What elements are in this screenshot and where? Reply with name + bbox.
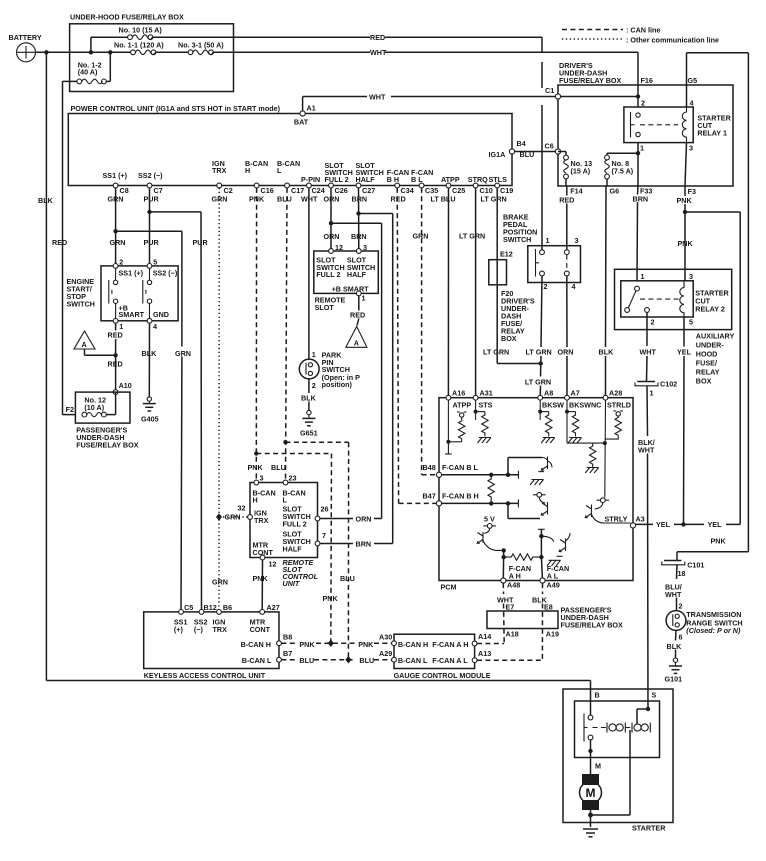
svg-text:IG1A: IG1A — [489, 150, 506, 159]
PCM F-CAN A L transistor cluster — [541, 533, 570, 566]
ground G651 — [300, 410, 318, 437]
svg-text:C101: C101 — [687, 561, 704, 570]
wire LT BLU C25 to PCM A16 — [448, 188, 485, 398]
PCM labels F-CAN A H / A L — [509, 564, 569, 581]
keyless pin B6 IGN TRX — [213, 603, 233, 634]
PCM pin A16 ATPP — [445, 388, 471, 454]
remote slot label and pin 1 — [315, 291, 366, 326]
connector C101 — [662, 561, 705, 579]
driver's under-dash fuse/relay box — [558, 61, 733, 186]
svg-text:1: 1 — [119, 322, 123, 331]
wire relay2 pin2 WHT down to C102 — [640, 312, 657, 381]
svg-text:E7: E7 — [506, 603, 515, 612]
svg-text:ORN: ORN — [356, 514, 372, 523]
svg-text:WHT: WHT — [640, 348, 657, 357]
svg-text:SS1 (+): SS1 (+) — [103, 171, 128, 180]
svg-text:G101: G101 — [665, 675, 683, 684]
svg-text:BOX: BOX — [501, 334, 517, 343]
svg-text:P-PIN: P-PIN — [301, 175, 320, 184]
svg-text:BLU: BLU — [359, 656, 374, 665]
svg-text:1: 1 — [312, 350, 316, 359]
svg-text:LT GRN: LT GRN — [459, 232, 485, 241]
PCM pin A8 BKSW — [538, 388, 564, 443]
svg-text:SS2 (−): SS2 (−) — [138, 171, 163, 180]
pin A1 BAT — [294, 104, 316, 127]
PCM F-CAN A resistor row — [502, 529, 545, 580]
starter motor — [580, 774, 602, 827]
starter outer box — [563, 689, 673, 833]
svg-text:1: 1 — [641, 272, 645, 281]
svg-text:C6: C6 — [545, 142, 554, 151]
svg-text:2: 2 — [312, 381, 316, 390]
PCM pin A28 STRLD — [603, 388, 631, 497]
svg-text:H: H — [245, 166, 250, 175]
wire BLU dashed B7 to gauge A29 — [281, 656, 391, 665]
wire F33 BRN down to relay2 pin 1 — [637, 186, 638, 281]
remote slot control unit label — [283, 558, 319, 588]
svg-text:(15 A): (15 A) — [571, 167, 591, 176]
svg-text:GRN: GRN — [212, 578, 228, 587]
PCU bottom pin C25 ATPP LT BLU — [431, 175, 466, 204]
starter cut relay 1 — [624, 98, 732, 186]
remote slot pin 12 MTR CONT — [253, 541, 277, 569]
keyless pin B12 SS2(-) — [194, 603, 217, 634]
svg-text:26: 26 — [321, 505, 329, 514]
starter coil return wire — [591, 730, 631, 815]
wire BLU/WHT to transmission range switch — [665, 565, 682, 611]
svg-text:TRX: TRX — [212, 166, 227, 175]
legend other communication line — [562, 36, 719, 45]
gauge pin A29 — [379, 649, 428, 665]
pin B4 IG1A BLU — [489, 139, 559, 159]
svg-text:A14: A14 — [478, 632, 491, 641]
svg-text:B-CAN H: B-CAN H — [241, 640, 271, 649]
svg-text:2: 2 — [679, 602, 683, 611]
wire S terminal to coils — [637, 707, 650, 724]
node G5 wire up and over to right edge — [687, 53, 749, 552]
passenger's under-dash fuse/relay box (No.12) — [66, 392, 139, 449]
PCU bottom pin C27 SLOT SWITCH HALF BRN — [352, 161, 384, 204]
wire RED No.10 branch y=37.2 — [89, 33, 542, 55]
wire BLK park pin to G651 — [301, 379, 317, 411]
svg-text:GND: GND — [153, 310, 169, 319]
PCU bottom pin C7 SS2(-) PUR — [138, 171, 163, 204]
wire WHT C24 to park pin switch — [308, 188, 310, 359]
ground G405 — [141, 397, 159, 424]
svg-text:WHT: WHT — [369, 93, 386, 102]
PCM 5V node and transistor — [478, 515, 504, 551]
wire WHT from A1 BAT y=96.5 — [303, 93, 638, 114]
svg-text:RED: RED — [350, 311, 365, 320]
svg-text:3: 3 — [575, 236, 579, 245]
remote slot pin 32 IGN TRX — [238, 504, 269, 526]
svg-text:1: 1 — [362, 294, 366, 303]
svg-text:WHT: WHT — [370, 48, 387, 57]
fuse No. 13 (15 A) — [564, 155, 592, 186]
slot switch unit box — [314, 232, 379, 294]
svg-text:AUXILIARY: AUXILIARY — [696, 332, 735, 341]
wire RED top branch down to brake switch pin 1 — [541, 37, 543, 250]
svg-text:ORN: ORN — [558, 348, 574, 357]
wire BLK left vertical from battery — [38, 50, 54, 680]
PCM pin A7 BKSWNC — [565, 388, 602, 443]
svg-text:TRANSMISSION: TRANSMISSION — [686, 610, 741, 619]
engine start/stop switch — [67, 257, 179, 331]
F-row F3 PNK — [677, 187, 696, 205]
svg-text:A: A — [82, 340, 87, 349]
svg-text:PNK: PNK — [253, 574, 269, 583]
svg-text:BLU: BLU — [299, 656, 314, 665]
svg-text:A27: A27 — [267, 603, 280, 612]
svg-text:FULL 2: FULL 2 — [283, 520, 307, 529]
svg-text:4: 4 — [572, 282, 576, 291]
svg-text:PNK: PNK — [677, 196, 693, 205]
svg-text:A31: A31 — [480, 388, 493, 397]
starter solenoid coils — [607, 723, 650, 733]
svg-text:3: 3 — [260, 474, 264, 483]
svg-text:ATPP: ATPP — [441, 175, 460, 184]
svg-text:A28: A28 — [609, 388, 622, 397]
svg-text:ORN: ORN — [324, 232, 340, 241]
svg-text:BKSW: BKSW — [542, 400, 564, 409]
svg-text:SLOT: SLOT — [315, 303, 335, 312]
svg-text:PUR: PUR — [193, 238, 209, 247]
wire PNK dashed branch to keyless B8 net — [254, 451, 338, 643]
svg-text:SWITCH: SWITCH — [503, 235, 531, 244]
F-row G6 — [610, 186, 620, 195]
fuse No. 3-1 (50 A) — [178, 41, 224, 55]
svg-text:HALF: HALF — [283, 545, 303, 554]
PCU bottom pin C35 F-CAN B L — [411, 168, 438, 195]
svg-text:C102: C102 — [660, 380, 677, 389]
svg-text:FUSE/: FUSE/ — [696, 359, 717, 368]
wire BLK bottom run to starter — [46, 681, 590, 716]
wire No. 1-2 branch — [63, 50, 113, 81]
svg-text:F14: F14 — [570, 186, 582, 195]
wire brake pin2 LT GRN down to PCM A8 — [525, 276, 552, 398]
svg-text:F16: F16 — [641, 76, 653, 85]
PCM B48 transistor cluster — [508, 457, 552, 486]
svg-text:3: 3 — [689, 272, 693, 281]
svg-text:WHT: WHT — [638, 446, 655, 455]
PCM pin A48 — [501, 578, 520, 590]
svg-text:A3: A3 — [636, 515, 645, 524]
svg-text:No. 1-1 (120 A): No. 1-1 (120 A) — [114, 41, 164, 50]
svg-text:5: 5 — [689, 318, 693, 327]
svg-text:32: 32 — [238, 504, 246, 513]
svg-text:2: 2 — [641, 98, 645, 107]
keyless pin B8 B-CAN H — [241, 633, 293, 649]
svg-text:L: L — [277, 166, 282, 175]
PCU bottom pin C2 IGN TRX GRN — [212, 159, 233, 204]
svg-text:F-CAN B H: F-CAN B H — [442, 492, 479, 501]
svg-text:SS2 (−): SS2 (−) — [153, 268, 178, 277]
svg-text:RED: RED — [108, 331, 123, 340]
svg-text:No. 10 (15 A): No. 10 (15 A) — [119, 26, 163, 35]
wire GRN dashed C35 F-CAN B L to PCM B48 — [413, 188, 437, 475]
svg-text:TRX: TRX — [213, 625, 228, 634]
svg-text:BAT: BAT — [294, 118, 309, 127]
svg-text:BLK: BLK — [38, 196, 54, 205]
svg-text:(40 A): (40 A) — [78, 68, 98, 77]
svg-text:RED: RED — [391, 195, 406, 204]
svg-text:G651: G651 — [300, 428, 318, 437]
svg-text:RELAY: RELAY — [696, 368, 720, 377]
svg-text:BATTERY: BATTERY — [9, 33, 42, 42]
wire PNK MTR CONT to keyless A27 — [253, 560, 269, 612]
svg-text:12: 12 — [335, 243, 343, 252]
svg-text:PNK: PNK — [323, 594, 339, 603]
power control unit box — [68, 104, 512, 186]
wire BLK/WHT down to starter S — [638, 386, 655, 709]
junction IGN TRX branch to remote slot 32 — [216, 513, 250, 522]
svg-text:position): position) — [322, 380, 353, 389]
fuse No. 8 (7.5 A) — [605, 151, 641, 186]
svg-text:C5: C5 — [184, 603, 193, 612]
svg-text:(10 A): (10 A) — [84, 403, 104, 412]
triangle A near slot switch — [346, 327, 367, 348]
svg-text:SMART: SMART — [119, 310, 145, 319]
wire relay2 pin5 YEL down — [677, 317, 692, 524]
svg-text:1: 1 — [640, 144, 644, 153]
wire F3 PNK down to relay2 pin 3 — [678, 186, 694, 281]
svg-text:PNK: PNK — [678, 239, 694, 248]
svg-text:3: 3 — [363, 243, 367, 252]
svg-text:POWER CONTROL UNIT (IG1A and S: POWER CONTROL UNIT (IG1A and STS HOT in … — [71, 104, 281, 113]
PCM CAN terminator resistor — [488, 475, 494, 502]
wire F14 RED down to brake switch pin 3 — [566, 186, 568, 250]
svg-text:STARTER: STARTER — [632, 824, 666, 833]
svg-text:RED: RED — [370, 33, 385, 42]
svg-text:BOX: BOX — [696, 377, 712, 386]
svg-text:PNK: PNK — [299, 640, 315, 649]
svg-text:RED: RED — [52, 238, 67, 247]
PCU bottom pin C10 STRQ — [468, 175, 493, 195]
svg-text:A H: A H — [509, 572, 521, 581]
wire PNK dashed B8 to gauge A30 — [281, 639, 391, 648]
svg-text:UNIT: UNIT — [283, 579, 300, 588]
pin C1 — [545, 86, 561, 99]
svg-text:2: 2 — [544, 282, 548, 291]
svg-text:BLK: BLK — [667, 642, 683, 651]
svg-text:FUSE/RELAY BOX: FUSE/RELAY BOX — [559, 76, 622, 85]
wire RED from ESS pin 1 — [108, 323, 123, 392]
svg-text:BLK: BLK — [301, 394, 317, 403]
remote slot pin 3 B-CAN H — [248, 463, 276, 505]
remote slot control unit box — [250, 483, 318, 558]
svg-text:BLU: BLU — [340, 574, 355, 583]
svg-text:YEL: YEL — [708, 520, 723, 529]
remote slot pin 26 SLOT SWITCH FULL 2 — [283, 505, 329, 529]
wire WHT main battery feed y=52.3 — [36, 48, 639, 57]
wire LT GRN C19 through E12 to A8 net — [483, 188, 540, 364]
svg-text:A19: A19 — [546, 630, 559, 639]
triangle A near ESS — [74, 331, 118, 357]
svg-text:RED: RED — [559, 196, 574, 205]
svg-text:RED: RED — [108, 359, 123, 368]
svg-text:S: S — [652, 691, 657, 700]
svg-text:ATPP: ATPP — [453, 400, 472, 409]
wire RED left vertical to passenger fuse box — [52, 81, 75, 414]
PCM pin A3 STRLY — [630, 515, 644, 529]
svg-text:PUR: PUR — [144, 238, 160, 247]
F-row F33 BRN — [633, 186, 653, 203]
svg-text:: CAN line: : CAN line — [626, 26, 660, 35]
PCU bottom pin C16 B-CAN H PNK — [245, 159, 274, 204]
svg-text:GRN: GRN — [175, 349, 191, 358]
wire GRN from C8 to ESS pin 2 — [110, 188, 126, 266]
svg-text:1: 1 — [650, 389, 654, 398]
svg-text:B12: B12 — [204, 603, 217, 612]
svg-text:FULL 2: FULL 2 — [316, 270, 340, 279]
PCU bottom pin C19 STLS LT GRN — [481, 175, 514, 204]
svg-text:+B SMART: +B SMART — [332, 284, 370, 293]
svg-text:A49: A49 — [547, 581, 560, 590]
svg-text:E8: E8 — [544, 603, 553, 612]
svg-text:B48: B48 — [423, 463, 436, 472]
ground G101 — [665, 658, 683, 684]
svg-text:G5: G5 — [688, 76, 698, 85]
keyless pin A27 MTR CONT — [250, 603, 280, 634]
svg-text:UNDER-HOOD FUSE/RELAY BOX: UNDER-HOOD FUSE/RELAY BOX — [70, 13, 184, 22]
svg-text:B6: B6 — [223, 603, 232, 612]
wire BLK to G101 — [667, 630, 683, 658]
svg-text:4: 4 — [690, 98, 694, 107]
starter ground — [583, 829, 598, 837]
PCM STRLY transistor — [586, 498, 631, 524]
svg-text:: Other communication line: : Other communication line — [626, 36, 719, 45]
fuse No. 10 (15 A) — [119, 26, 163, 40]
wire GRN dotted C2 to keyless B6 — [212, 188, 228, 612]
svg-text:F-CAN A L: F-CAN A L — [432, 656, 468, 665]
svg-text:RELAY 1: RELAY 1 — [697, 129, 727, 138]
wire PUR branch to keyless B12 — [147, 210, 208, 612]
svg-text:PNK: PNK — [248, 463, 264, 472]
svg-text:LT GRN: LT GRN — [481, 195, 507, 204]
gauge pin A14 F-CAN A H — [432, 632, 491, 649]
passenger's under-dash fuse/relay box E7 E8 — [487, 603, 623, 639]
svg-text:A8: A8 — [544, 388, 553, 397]
svg-text:STRLY: STRLY — [605, 515, 628, 524]
svg-text:2: 2 — [651, 318, 655, 327]
svg-text:FUSE/RELAY BOX: FUSE/RELAY BOX — [76, 440, 139, 449]
brake pedal position switch — [503, 213, 581, 292]
svg-text:GAUGE CONTROL MODULE: GAUGE CONTROL MODULE — [394, 671, 491, 680]
pin C6 — [545, 142, 561, 155]
wire C6 to fuse 13 — [558, 152, 566, 156]
keyless pin B7 B-CAN L — [242, 649, 292, 665]
svg-text:TRX: TRX — [254, 516, 269, 525]
svg-text:PNK: PNK — [711, 537, 727, 546]
F-row labels F14 RED — [559, 186, 582, 204]
svg-text:BLK: BLK — [599, 348, 615, 357]
svg-text:SWITCH: SWITCH — [67, 300, 95, 309]
svg-text:PCM: PCM — [441, 583, 457, 592]
under-hood fuse/relay box — [70, 13, 234, 92]
svg-text:F2: F2 — [66, 405, 74, 414]
svg-text:5 V: 5 V — [484, 515, 495, 524]
PCM pin B48 F-CAN B L — [423, 463, 519, 479]
svg-text:GRN: GRN — [225, 513, 241, 522]
svg-text:1: 1 — [546, 236, 550, 245]
transmission range switch — [666, 602, 743, 642]
svg-text:A29: A29 — [379, 649, 392, 658]
wire contact to motor M — [588, 740, 601, 774]
wire WHT dashed A48 to E7 to A14 — [477, 583, 514, 643]
svg-text:(−): (−) — [194, 625, 204, 634]
svg-text:WHT: WHT — [665, 590, 682, 599]
svg-text:STS: STS — [479, 400, 493, 409]
svg-text:B7: B7 — [283, 649, 292, 658]
svg-text:G405: G405 — [141, 415, 159, 424]
wire C10 to PCM A31 — [475, 188, 477, 398]
svg-text:CONT: CONT — [250, 625, 271, 634]
fuse box E12 — [489, 250, 513, 285]
park pin switch — [299, 350, 360, 390]
svg-text:6: 6 — [679, 633, 683, 642]
wire BLU dashed branch to keyless B7 net — [283, 440, 354, 660]
wire BLK ESS pin 4 to G405 — [142, 323, 158, 397]
keyless access control unit box — [144, 612, 279, 680]
svg-text:GRN: GRN — [110, 238, 126, 247]
svg-text:BLK: BLK — [142, 349, 158, 358]
svg-text:12: 12 — [269, 560, 277, 569]
PCU bottom pin C24 P-PIN WHT — [301, 175, 325, 204]
svg-text:PNK: PNK — [358, 640, 374, 649]
svg-text:H: H — [253, 496, 258, 505]
svg-text:No. 3-1 (50 A): No. 3-1 (50 A) — [178, 41, 224, 50]
svg-text:KEYLESS ACCESS CONTROL UNIT: KEYLESS ACCESS CONTROL UNIT — [144, 671, 266, 680]
svg-text:BKSWNC: BKSWNC — [569, 400, 601, 409]
svg-text:C1: C1 — [545, 86, 554, 95]
starter cut relay 2 — [621, 272, 730, 326]
svg-text:F-CAN B L: F-CAN B L — [442, 463, 479, 472]
svg-text:FULL 2: FULL 2 — [325, 175, 349, 184]
svg-text:BRN: BRN — [633, 194, 649, 203]
svg-text:UNDER-: UNDER- — [696, 341, 725, 350]
svg-text:LT BLU: LT BLU — [431, 195, 456, 204]
svg-text:(Closed: P or N): (Closed: P or N) — [686, 626, 741, 635]
svg-text:B: B — [595, 691, 600, 700]
svg-text:B-CAN L: B-CAN L — [242, 656, 272, 665]
PCM B47 transistor cluster — [508, 492, 548, 518]
wire YEL from A3 to right — [636, 520, 741, 529]
fuse No. 1-2 (40 A) — [77, 61, 106, 84]
svg-text:A10: A10 — [119, 381, 132, 390]
PCU bottom pin C17 B-CAN L BLU — [277, 159, 304, 204]
svg-text:STRQ: STRQ — [468, 175, 488, 184]
PCU bottom pin C8 SS1(+) GRN — [103, 171, 129, 204]
wire RED dashed C34 F-CAN B H to PCM B47 — [397, 188, 436, 504]
svg-text:3: 3 — [689, 144, 693, 153]
svg-text:A16: A16 — [452, 388, 465, 397]
svg-text:E12: E12 — [500, 250, 513, 259]
svg-text:M: M — [586, 786, 596, 800]
svg-text:4: 4 — [153, 322, 157, 331]
svg-text:BLU: BLU — [277, 195, 292, 204]
svg-text:STRLD: STRLD — [607, 400, 631, 409]
wire BRN branch down right side — [318, 211, 393, 548]
svg-text:5: 5 — [153, 257, 157, 266]
PCM box — [439, 398, 633, 592]
svg-text:B47: B47 — [423, 492, 436, 501]
svg-text:A1: A1 — [307, 104, 316, 113]
wire PNK dashed C16 to remote slot 3 — [255, 188, 257, 483]
svg-text:FUSE/RELAY BOX: FUSE/RELAY BOX — [561, 621, 624, 630]
svg-text:A30: A30 — [379, 633, 392, 642]
svg-text:18: 18 — [678, 569, 686, 578]
svg-text:A18: A18 — [506, 630, 519, 639]
